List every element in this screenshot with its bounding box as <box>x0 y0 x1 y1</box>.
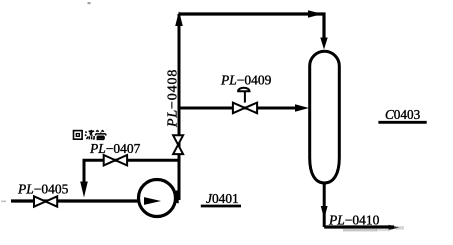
arrow into vessel side <box>295 104 309 111</box>
svg-text:PL−0407: PL−0407 <box>89 141 141 156</box>
回 <box>74 131 83 140</box>
arrow up at top of riser <box>175 11 183 26</box>
wire inlet line PL-0409 <box>179 107 296 110</box>
wire main feed line PL-0405 <box>11 199 146 202</box>
label J0401 <box>201 191 241 206</box>
arrow at end of PL-0410 <box>389 225 405 230</box>
label PL-0405 <box>17 182 69 197</box>
label 回流管 (return pipe) <box>74 130 106 140</box>
label PL-0410 <box>328 213 380 228</box>
wire vessel bottom stem <box>323 182 326 227</box>
label PL-0409 <box>220 72 272 87</box>
流 <box>85 132 88 140</box>
wire bottom outlet PL-0410 <box>324 225 394 228</box>
svg-text:PL−0408: PL−0408 <box>166 69 181 128</box>
arrow pump inlet <box>144 197 161 205</box>
wire return line drop <box>84 160 179 182</box>
vessel C0403 <box>310 51 340 183</box>
arrow down on stem <box>321 206 328 219</box>
svg-text:J0401: J0401 <box>206 191 239 206</box>
label C0403 <box>378 107 426 122</box>
svg-text:PL−0405: PL−0405 <box>17 182 69 197</box>
pump J0401 circle <box>139 180 176 217</box>
valve PL-0407 <box>104 155 127 165</box>
smudge under PL-0410 <box>343 229 390 232</box>
wire top run <box>179 14 324 40</box>
管 <box>96 130 104 132</box>
arrow down into vessel top <box>320 38 327 50</box>
arrow down onto main line <box>80 182 88 198</box>
arrow right on top run <box>308 10 322 17</box>
valve on riser <box>173 135 183 154</box>
label PL-0408 (rotated) <box>166 69 181 128</box>
svg-text:PL−0409: PL−0409 <box>220 72 272 87</box>
control valve PL-0409 <box>233 88 257 113</box>
wire riser PL-0408 <box>175 14 179 204</box>
svg-text:C0403: C0403 <box>385 107 421 122</box>
label PL-0407 <box>89 141 141 156</box>
svg-text:PL−0410: PL−0410 <box>328 213 380 228</box>
valve PL-0405 <box>34 196 57 206</box>
speck left edge <box>1 201 6 203</box>
speck top <box>88 2 91 4</box>
